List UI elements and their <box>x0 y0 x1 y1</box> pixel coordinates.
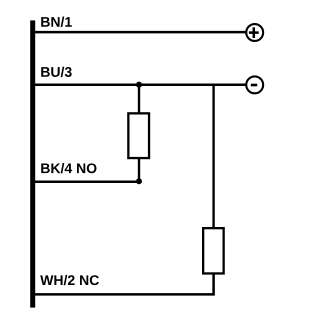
wire from R2 down to WH/2 corner <box>35 274 214 295</box>
wire BN/1 <box>35 31 246 34</box>
wire from BU/3 node down to load R1 <box>138 85 140 113</box>
label BN/1 <box>41 17 72 27</box>
node junction on BU/3 <box>136 82 142 88</box>
load resistor R2 (NC output load) <box>203 228 224 273</box>
node junction BK/4 <box>136 178 142 184</box>
terminal - (L-) <box>246 76 263 93</box>
wire from BU/3 down to load R2 <box>212 85 214 228</box>
wire from R1 down to BK/4 node <box>138 159 140 182</box>
wire BK/4 NO <box>35 180 139 183</box>
sensor supply bus bar <box>30 20 35 307</box>
wire BU/3 <box>35 84 246 87</box>
label WH/2 NC <box>40 275 99 285</box>
terminal + (L+) <box>246 24 263 41</box>
label BU/3 <box>41 67 71 77</box>
label BK/4 NO <box>41 163 96 173</box>
load resistor R1 (NO output load) <box>128 113 149 158</box>
